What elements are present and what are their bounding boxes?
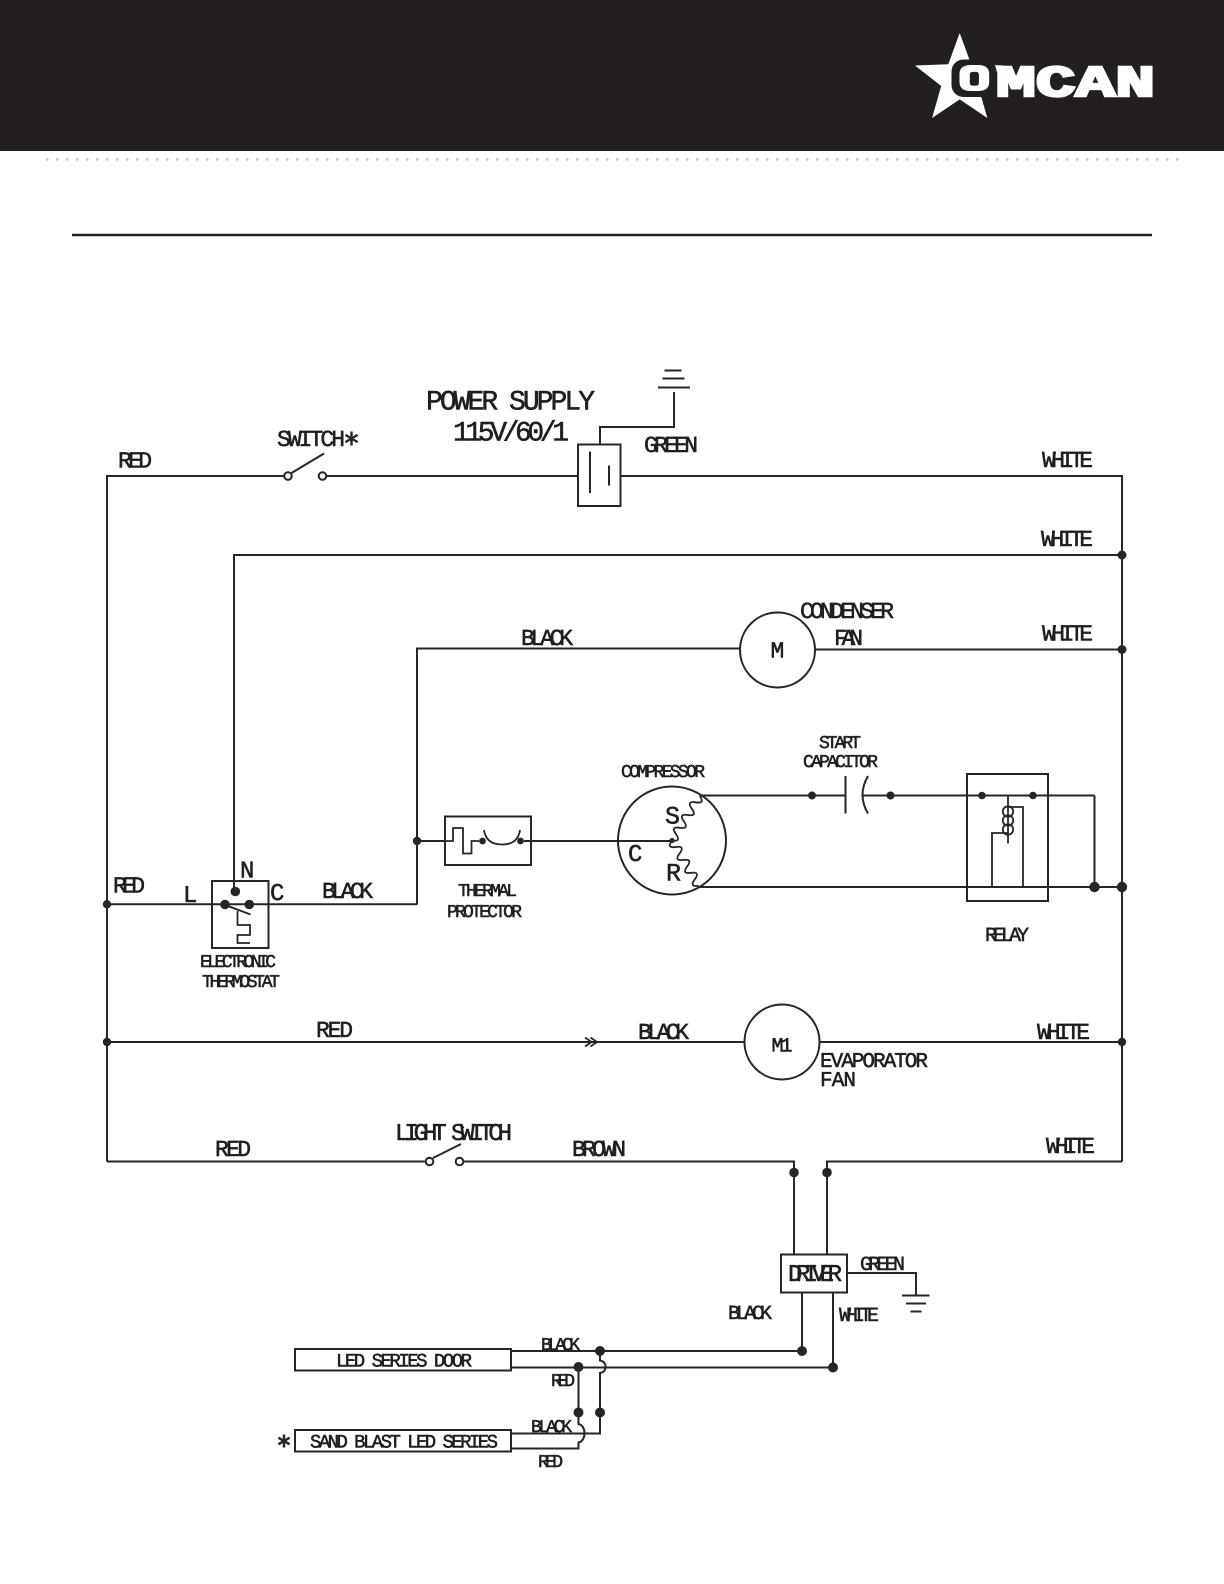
- wire power row left segment: [106, 475, 284, 477]
- svg-text:C: C: [628, 842, 642, 869]
- perforation dotted line: [46, 158, 1185, 161]
- svg-text:BLACK: BLACK: [322, 879, 373, 905]
- wire condenser drop: [416, 648, 418, 905]
- svg-text:WHITE: WHITE: [1046, 1134, 1095, 1160]
- thermostat sensor zigzag: [238, 911, 251, 943]
- svg-text:LED SERIES DOOR: LED SERIES DOOR: [336, 1351, 472, 1373]
- start capacitor C1: [845, 776, 847, 814]
- wire right bus: [1121, 475, 1123, 1162]
- power plug P1: [578, 445, 621, 507]
- wire neutral row: [234, 554, 1122, 556]
- wire thermal to compressor: [524, 840, 672, 842]
- condenser fan motor M: [740, 613, 815, 688]
- thermostat lever: [228, 906, 251, 915]
- svg-text:BROWN: BROWN: [572, 1137, 626, 1163]
- relay box: [967, 774, 1048, 901]
- wire thermal row: [417, 840, 446, 842]
- svg-text:115V/60/1: 115V/60/1: [453, 419, 569, 450]
- switch SW1: [284, 472, 292, 480]
- node red joint: [574, 1408, 584, 1418]
- OMCAN logo O badge: [952, 60, 997, 98]
- wire black to sand box: [511, 1413, 600, 1434]
- node led red tap: [574, 1362, 584, 1372]
- wire red drop: [578, 1367, 580, 1413]
- evaporator fan motor M1: [745, 1005, 820, 1080]
- svg-text:SWITCH: SWITCH: [277, 427, 345, 453]
- node capacitor right: [887, 792, 895, 800]
- thermostat L terminal: [220, 900, 230, 910]
- svg-text:WHITE: WHITE: [1042, 622, 1093, 648]
- svg-text:THERMOSTAT: THERMOSTAT: [202, 973, 280, 993]
- svg-text:C: C: [270, 881, 284, 908]
- svg-text:FAN: FAN: [834, 626, 863, 652]
- svg-text:GREEN: GREEN: [644, 433, 698, 459]
- node driver black / led row: [797, 1346, 807, 1356]
- sand blast led box: [295, 1430, 511, 1452]
- compressor S winding: [672, 796, 702, 841]
- node brown drop: [789, 1168, 799, 1178]
- svg-text:CAPACITOR: CAPACITOR: [803, 753, 878, 773]
- wire driver black drop: [801, 1293, 803, 1352]
- wire thermostat N riser: [233, 554, 235, 891]
- arrow evap row: [585, 1038, 597, 1047]
- wire left bus: [106, 476, 108, 1162]
- svg-text:BLACK: BLACK: [728, 1303, 772, 1326]
- asterisk sand box: [278, 1435, 289, 1448]
- svg-text:BLACK: BLACK: [531, 1418, 572, 1438]
- svg-text:START: START: [819, 734, 861, 754]
- relay terminal nodes: [978, 792, 986, 800]
- node led black tap: [595, 1346, 605, 1356]
- wire power row right segment: [621, 475, 1124, 477]
- wire led black row: [511, 1350, 802, 1352]
- electronic thermostat box: [212, 881, 269, 948]
- svg-text:GREEN: GREEN: [860, 1254, 905, 1277]
- header bar: [0, 0, 1224, 151]
- svg-text:PROTECTOR: PROTECTOR: [447, 903, 522, 923]
- node neutral/right bus: [1118, 551, 1127, 560]
- svg-text:BLACK: BLACK: [638, 1020, 689, 1046]
- svg-text:BLACK: BLACK: [521, 626, 573, 652]
- svg-text:THERMAL: THERMAL: [458, 882, 517, 902]
- node left bus thermostat: [103, 900, 111, 908]
- wire evaporator row right: [820, 1041, 1123, 1043]
- compressor R winding: [670, 841, 699, 886]
- svg-text:WHITE: WHITE: [839, 1305, 879, 1328]
- node driver white / red row: [828, 1363, 838, 1373]
- wire relay right drop: [1094, 796, 1096, 888]
- svg-text:R: R: [666, 860, 681, 889]
- wire driver green: [847, 1273, 916, 1295]
- svg-text:ELECTRONIC: ELECTRONIC: [200, 953, 276, 973]
- svg-text:WHITE: WHITE: [1037, 1020, 1090, 1046]
- node run/relay drop: [1089, 882, 1099, 892]
- ground (driver): [902, 1295, 930, 1297]
- svg-text:S: S: [665, 803, 680, 832]
- compressor shell: [618, 787, 726, 895]
- svg-text:LIGHT SWITCH: LIGHT SWITCH: [395, 1121, 512, 1148]
- wire condenser row right: [815, 649, 1123, 651]
- horizontal rule: [72, 234, 1152, 237]
- svg-text:WHITE: WHITE: [1042, 448, 1093, 474]
- wire switch to plug: [327, 475, 579, 477]
- wire plug to ground: [600, 392, 674, 445]
- svg-text:CONDENSER: CONDENSER: [800, 599, 894, 625]
- wire black hop over red: [600, 1351, 606, 1413]
- wire light row left: [107, 1161, 426, 1163]
- svg-text:POWER SUPPLY: POWER SUPPLY: [426, 388, 595, 419]
- wire driver white drop: [832, 1293, 834, 1368]
- svg-text:RED: RED: [316, 1018, 353, 1044]
- relay coil: [1007, 796, 1009, 844]
- svg-text:RED: RED: [215, 1137, 251, 1163]
- svg-text:RED: RED: [113, 874, 145, 900]
- svg-text:RED: RED: [538, 1453, 563, 1473]
- ground (top): [658, 387, 690, 389]
- wire start row: [700, 795, 845, 797]
- svg-text:N: N: [240, 859, 254, 886]
- svg-text:RED: RED: [118, 449, 152, 475]
- svg-text:MCAN: MCAN: [996, 60, 1155, 110]
- node evap right bus: [1118, 1038, 1126, 1046]
- svg-text:COMPRESSOR: COMPRESSOR: [621, 763, 705, 783]
- node condenser drop / thermal: [413, 837, 421, 845]
- node white drop: [822, 1168, 832, 1178]
- node evap left bus: [103, 1038, 111, 1046]
- svg-text:RELAY: RELAY: [985, 925, 1029, 948]
- svg-text:M1: M1: [772, 1036, 793, 1059]
- thermostat N terminal: [231, 887, 241, 897]
- wire led red row: [511, 1367, 833, 1369]
- svg-text:L: L: [183, 883, 197, 910]
- node run/right bus: [1117, 882, 1127, 892]
- compressor common node: [669, 838, 674, 843]
- wire brown: [464, 1162, 795, 1255]
- svg-text:BLACK: BLACK: [541, 1336, 580, 1356]
- node condenser/right bus: [1118, 645, 1127, 654]
- light switch SW2: [426, 1158, 434, 1166]
- thermal protector element: [445, 828, 479, 854]
- relay contact frame: [1008, 807, 1023, 887]
- wire run row: [699, 886, 1122, 888]
- svg-text:SAND BLAST LED SERIES: SAND BLAST LED SERIES: [310, 1432, 498, 1454]
- node black joint: [595, 1408, 605, 1418]
- thermal protector box: [445, 817, 531, 866]
- wire condenser row left: [417, 648, 740, 650]
- OMCAN logo star: [915, 33, 1004, 118]
- svg-text:DRIVER: DRIVER: [788, 1262, 842, 1289]
- wire thermostat row: [106, 903, 417, 905]
- svg-text:M: M: [771, 639, 785, 665]
- asterisk switch label: [345, 432, 357, 446]
- LED series door box: [295, 1349, 511, 1371]
- wire red hop over black: [511, 1413, 585, 1449]
- wire capacitor to relay: [862, 795, 1095, 797]
- node start row left: [808, 792, 816, 800]
- svg-text:RED: RED: [551, 1372, 575, 1392]
- wire evaporator row left: [107, 1041, 745, 1043]
- driver box: [781, 1255, 847, 1293]
- svg-text:FAN: FAN: [820, 1070, 856, 1093]
- svg-text:WHITE: WHITE: [1041, 527, 1093, 553]
- wire light row right: [827, 1162, 1122, 1255]
- thermostat C terminal: [245, 900, 255, 910]
